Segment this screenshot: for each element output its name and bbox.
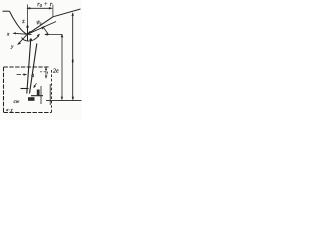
ground baseline [46, 100, 82, 102]
dimension line (rim height) [72, 13, 74, 99]
short ray below P [44, 28, 49, 35]
rim extension ray to upper right [53, 9, 81, 17]
svg-text:a·χ: a·χ [6, 107, 13, 112]
inner dashed step vertical [47, 72, 49, 76]
dashed box left edge [3, 67, 5, 113]
2e down arrowhead [45, 76, 47, 79]
phi arc arrowhead [37, 34, 40, 38]
svg-text:ψ0: ψ0 [37, 21, 42, 26]
feed detail: vertical line right [49, 84, 51, 105]
cone right branch (paraboloid wall) [28, 17, 53, 34]
svg-text:y: y [10, 44, 14, 50]
x axis arrowhead [12, 32, 16, 34]
extension line left (z axis extension) [27, 5, 29, 25]
stem right line [30, 44, 37, 94]
feed detail: small block [28, 97, 35, 101]
focus dot [30, 38, 32, 40]
feed detail: upper dark block [37, 90, 40, 97]
y axis [18, 31, 30, 44]
down arrowhead apex-height dimension [61, 97, 63, 101]
svg-text:2e: 2e [53, 69, 59, 75]
stem radius arrowhead [24, 73, 28, 75]
stem left line [27, 41, 31, 94]
x axis [14, 33, 32, 34]
down arrowhead rim-height dimension [72, 97, 74, 101]
left arrowhead of top dimension [26, 7, 30, 9]
y axis arrowhead [17, 42, 21, 45]
phi arc around stem [22, 36, 39, 41]
dimension line r0+r [27, 7, 52, 9]
dashed box bottom edge [4, 112, 52, 114]
stem radius dimension arrow [17, 74, 27, 76]
svg-text:r0 + r: r0 + r [37, 2, 53, 8]
svg-text:a: a [31, 73, 34, 79]
right arrowhead of top dimension [49, 7, 53, 9]
cone left branch (paraboloid wall) [10, 11, 28, 34]
cone rim left tick [3, 10, 10, 12]
r arrowhead on ray [41, 26, 45, 30]
up arrowhead rim-height dimension [72, 12, 74, 16]
tick near stem bottom [21, 88, 29, 90]
feed detail: horizontal line [31, 95, 43, 97]
small arrow onto right stem [34, 83, 37, 88]
2e up arrowhead [45, 67, 47, 70]
svg-text:cw: cw [14, 99, 20, 105]
inner dashed step horizontal [40, 71, 48, 73]
svg-text:x: x [6, 32, 10, 38]
blip on rim-height line [72, 60, 74, 63]
extension line right [52, 5, 54, 17]
dashed box right edge [51, 70, 53, 113]
apex-height reference line [45, 34, 62, 36]
arrowhead at left end of reference line [44, 33, 48, 35]
dimension line (apex height) [61, 35, 63, 100]
2e dimension line [45, 68, 47, 79]
z axis arrowhead [26, 24, 29, 28]
dashed box top edge [4, 66, 51, 68]
paper background [0, 0, 82, 120]
z axis [27, 26, 29, 42]
feed detail: vertical line left [40, 86, 42, 104]
junction tick at reference/dimension corner [61, 34, 64, 38]
r ray from origin [28, 22, 57, 35]
